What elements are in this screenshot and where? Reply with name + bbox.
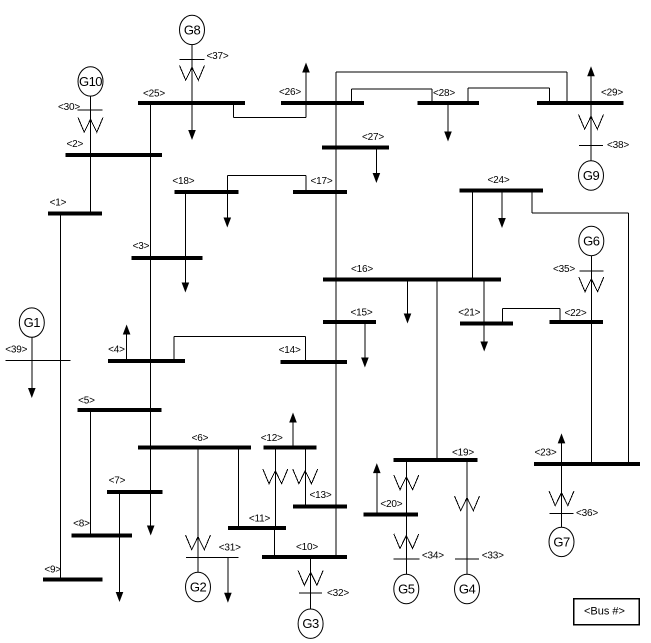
bus 18 bar [175,190,239,194]
wire 28-29 [467,88,469,103]
wire 19-20 with transformer [405,460,407,515]
bus 24 bar [460,189,544,193]
wire 24-23 [531,191,533,214]
generator G5 lead [405,515,407,575]
bus 33 tick [455,558,479,560]
transformer 23-36 [549,491,574,506]
svg-text:G4: G4 [459,582,476,597]
load arrow bus 24 [501,191,503,216]
bus 21 bar [460,322,513,326]
bus 10 bar [262,555,347,559]
svg-text:<12>: <12> [261,433,283,444]
transformer 19-33 [455,496,480,511]
bus 36 tick [550,512,574,514]
wire 6-11 [238,447,240,528]
bus 32 tick [299,592,322,594]
svg-text:<34>: <34> [422,550,444,561]
svg-text:<6>: <6> [192,433,209,444]
bus 3 bar [131,256,202,260]
svg-text:G3: G3 [302,616,319,631]
svg-text:<4>: <4> [108,345,125,356]
generator G6 lead [590,256,592,323]
svg-text:<Bus #>: <Bus #> [584,606,625,618]
bus 37 tick [180,59,205,61]
bus 39 tick [6,360,71,362]
transformer 22-35 [579,277,604,292]
svg-text:<15>: <15> [350,308,372,319]
svg-text:<10>: <10> [296,542,318,553]
svg-text:<1>: <1> [50,198,67,209]
wire 21-22 [502,308,504,323]
wire 16-19 [436,280,438,460]
svg-text:G5: G5 [398,582,415,597]
svg-text:<11>: <11> [249,514,271,525]
generator G6 [579,226,604,255]
svg-text:<18>: <18> [172,176,194,187]
generator G3 [298,609,323,638]
transformer 2-30 [78,118,103,133]
svg-text:<8>: <8> [73,519,90,530]
load arrow bus 12 [292,425,294,448]
bus 23 bar [534,462,640,466]
load arrow bus 27 [375,148,377,171]
wire 17-18 [226,175,228,191]
load arrow bus 23 [561,446,563,464]
svg-text:<3>: <3> [133,241,150,252]
svg-text:<9>: <9> [44,565,61,576]
bus 14 bar [281,360,348,364]
generator G7 lead [561,464,563,527]
svg-text:<33>: <33> [482,550,504,561]
bus 5 bar [78,408,162,412]
generator G2 lead wire 6-31 [197,447,199,572]
svg-text:G7: G7 [553,534,570,549]
wire 16-24 [471,191,473,280]
bus 38 tick [579,144,603,146]
transformer 10-32 [298,571,323,586]
load arrow bus 28 [447,103,449,129]
svg-text:<21>: <21> [458,308,480,319]
svg-text:<24>: <24> [487,175,509,186]
generator G8 lead + load arrow bus 25 [191,44,193,127]
wire 1-2 / G10 feeder [90,96,92,214]
svg-text:<7>: <7> [109,476,126,487]
bus 13 bar [293,505,347,509]
transformer 6-31 [186,535,211,550]
generator G3 lead wire 10-32 [310,557,312,610]
load arrow bus 3 [184,258,186,280]
svg-text:<38>: <38> [607,140,629,151]
bus 26 bar [281,101,364,105]
generator G1 [19,308,44,337]
wire 4-14 [173,337,175,362]
bus 6 bar [138,445,251,449]
bus 22 bar [550,320,604,324]
load arrow bus 8 [119,580,121,597]
svg-text:<2>: <2> [66,139,83,150]
svg-text:<32>: <32> [327,588,349,599]
wire 1-39-9 [59,214,61,580]
load arrow bus 31 [227,558,229,590]
transformer 25-37 [180,66,205,81]
load arrow bus 21 [483,324,485,341]
wire 7-8 [119,492,121,589]
svg-text:G8: G8 [184,22,201,37]
bus 9 bar [43,577,103,581]
wire chain 26-27-17-16-15-14-13-10 [335,72,337,556]
bus 25 bar [138,101,245,105]
bus 15 bar [323,320,376,324]
wire 25-26 dip [233,103,235,118]
svg-text:G9: G9 [583,168,600,183]
svg-text:<28>: <28> [433,88,455,99]
svg-text:<31>: <31> [219,543,241,554]
svg-text:<5>: <5> [78,396,95,407]
bus 34 tick [393,558,419,560]
wire 5-8 [89,410,91,536]
transformer 12-13 [304,448,306,507]
generator G7 [549,527,574,556]
wire 16-21 [483,280,485,324]
generator G10 tick bus 30 [77,109,102,111]
bus 2 bar [65,153,162,157]
wire 26-29 top run [336,71,567,73]
svg-text:<20>: <20> [380,499,402,510]
bus 4 bar [108,359,185,363]
load arrow bus 26 [305,75,307,103]
bus 31 tick [186,557,239,559]
svg-text:G10: G10 [79,74,102,89]
svg-text:<25>: <25> [143,89,165,100]
wire 10-11 [274,528,276,557]
wire 22-23 [591,322,593,464]
bus 28 bar [417,101,479,105]
load arrow bus 16 [407,280,409,312]
transformer 29-38 [579,115,604,130]
bus 16 bar [323,278,501,282]
svg-text:<26>: <26> [279,87,301,98]
svg-text:<17>: <17> [310,176,332,187]
svg-text:<27>: <27> [362,132,384,143]
bus 12 bar [264,446,317,450]
generator G4 lead wire 19-33 [466,460,468,575]
svg-text:<13>: <13> [309,490,331,501]
bus 27 bar [322,146,389,150]
wire chain 25-2-3-4-5-6-7 [150,103,152,523]
load arrow bus 15 [364,322,366,355]
transformer 20-34 [394,534,419,549]
svg-text:<36>: <36> [576,508,598,519]
bus 7 bar [107,490,162,494]
load arrow bus 4 [126,337,128,361]
generator G10 [78,67,103,96]
bus 29 bar [537,101,624,105]
svg-text:G6: G6 [583,234,600,249]
transformer 11-12 [274,448,276,528]
svg-text:<30>: <30> [58,102,80,113]
generator G5 [394,574,419,603]
generator G9 lead + load arrow bus 29 [590,79,592,161]
svg-text:<29>: <29> [601,88,623,99]
svg-text:<35>: <35> [553,264,575,275]
bus 20 bar [364,513,418,517]
bus 11 bar [228,526,286,530]
generator G4 [455,574,480,603]
load arrow bus 18 [226,192,228,215]
bus 35 tick [579,270,603,272]
svg-text:<23>: <23> [534,448,556,459]
generator G8 [180,15,205,44]
generator G9 [579,161,604,190]
svg-text:<16>: <16> [351,264,373,275]
svg-text:<14>: <14> [279,345,301,356]
generator G2 [186,572,211,601]
svg-text:<37>: <37> [206,51,228,62]
bus 19 bar [394,458,478,462]
svg-text:<39>: <39> [5,344,27,355]
legend box Bus # [574,599,640,625]
svg-text:<19>: <19> [452,448,474,459]
wire 26-28 [351,89,353,103]
svg-text:<22>: <22> [564,308,586,319]
generator G1 lead + load arrow bus 39 [31,337,33,385]
bus 8 bar [71,534,132,538]
wire 3-18 [184,192,186,258]
svg-text:G1: G1 [24,315,41,330]
load arrow bus 20 [376,476,378,515]
svg-text:G2: G2 [190,580,207,595]
bus 1 bar [48,212,102,216]
bus 17 bar [293,190,347,194]
load arrow bus 7 [150,514,152,531]
